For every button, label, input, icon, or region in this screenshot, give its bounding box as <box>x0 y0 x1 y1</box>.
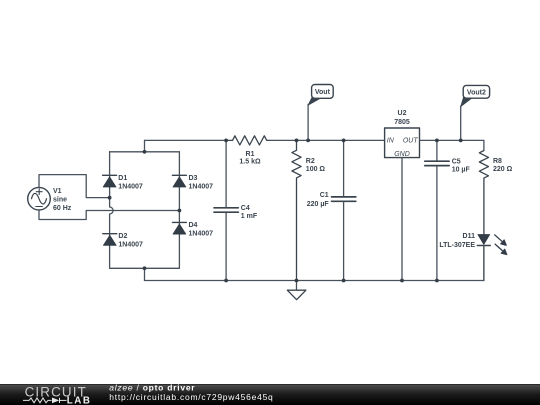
node flag Vout <box>308 85 333 106</box>
R8 label <box>493 158 513 173</box>
node: C4 bottom <box>224 279 228 283</box>
C1 label <box>307 192 330 208</box>
node flag Vout2 <box>461 85 490 106</box>
capacitor C4 <box>214 140 238 280</box>
node: C5 bottom <box>435 279 439 283</box>
svg-text:alzee / opto driver: alzee / opto driver <box>109 383 195 393</box>
C5 label <box>452 158 471 173</box>
wire V1 top to bridge left <box>39 175 110 198</box>
R1 label <box>239 151 261 166</box>
wire right rail <box>420 140 484 150</box>
node: U2 GND bottom <box>400 279 404 283</box>
node: Vout2 tap <box>459 139 463 143</box>
node: C1 bottom <box>342 279 346 283</box>
diode D1 <box>103 175 117 187</box>
node: Vout tap <box>306 139 310 143</box>
resistor R8 <box>479 151 488 235</box>
junction dots <box>108 139 463 283</box>
wire middle horizontal <box>106 210 179 212</box>
wire bridge bottom dropper <box>144 268 146 280</box>
resistor R2 <box>292 140 301 280</box>
wire bottom rail <box>145 280 484 282</box>
wire bridge top <box>110 151 180 153</box>
diode D3 <box>172 175 186 187</box>
node Vout2 wire <box>460 106 462 140</box>
node Vout wire <box>307 104 309 140</box>
node: ground/R2 bottom <box>295 279 299 283</box>
svg-text:LAB: LAB <box>67 396 92 405</box>
C4 label <box>241 205 258 220</box>
node: bridge bottom dropper <box>143 266 147 270</box>
node: C4 top <box>224 139 228 143</box>
D1 label <box>118 175 143 191</box>
D11 label <box>439 233 475 249</box>
D4 label <box>189 222 214 238</box>
diode D4 <box>172 222 186 234</box>
wire U2 GND pin <box>401 158 403 281</box>
ground <box>287 281 306 300</box>
node: middle to right vertical <box>178 209 182 213</box>
resistor R1 <box>230 136 270 145</box>
R2 label <box>306 158 326 173</box>
D2 label <box>118 233 143 249</box>
capacitor C1 <box>332 140 356 280</box>
U2 label <box>394 110 410 126</box>
wire bridge left vertical with hop <box>110 152 114 268</box>
wire bridge right vertical <box>178 152 180 268</box>
diode D2 <box>103 234 117 246</box>
wire LED to bottom rail <box>483 246 485 281</box>
voltage source V1 <box>28 187 51 210</box>
node: C1 top <box>342 139 346 143</box>
node: R2 top <box>295 139 299 143</box>
node: bridge top riser <box>143 150 147 154</box>
node: C5 top <box>435 139 439 143</box>
footer bar <box>0 384 540 405</box>
wire top rail left <box>145 139 231 141</box>
svg-text:http://circuitlab.com/c729pw45: http://circuitlab.com/c729pw456e45q <box>109 392 273 402</box>
wire V1 bottom to middle <box>39 210 106 220</box>
wire top rail right of R1 <box>270 139 385 141</box>
LED D11 light arrows <box>495 235 507 255</box>
D3 label <box>189 175 214 191</box>
capacitor C5 <box>425 140 449 280</box>
op-amp U2 regulator box <box>385 128 420 158</box>
V1 label <box>53 188 72 212</box>
wire bridge bottom <box>110 267 180 269</box>
wire bridge top riser <box>144 140 146 151</box>
LED D11 <box>477 235 490 281</box>
node: V1 top to bridge <box>108 196 112 200</box>
